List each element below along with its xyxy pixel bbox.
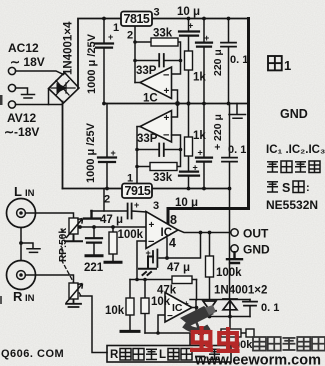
R channel box [107, 346, 231, 363]
wire: signal line from pot wiper to IC3 + input [80, 226, 146, 228]
Chinese note: tu1 (figure 1) [268, 56, 282, 70]
svg-text:100k: 100k [118, 229, 144, 241]
ground: under GND terminal [227, 252, 242, 263]
svg-text:www.eeworm.com: www.eeworm.com [194, 353, 321, 366]
svg-text:L: L [159, 349, 166, 361]
svg-text:7815: 7815 [124, 12, 150, 26]
svg-text:−: − [163, 130, 169, 142]
wire: 0V mid rail [104, 103, 249, 105]
svg-text:R: R [110, 349, 119, 361]
resistor 1k top [185, 51, 193, 70]
resistor 100k input [109, 232, 117, 254]
wire: lower row to R-channel box [145, 333, 190, 345]
svg-text:47 μ: 47 μ [167, 262, 190, 274]
potentiometer arrow L [66, 219, 83, 239]
svg-text:R: R [13, 289, 23, 304]
svg-text:+: + [108, 32, 113, 42]
svg-text:10 μ: 10 μ [175, 197, 198, 209]
svg-text:100k: 100k [216, 267, 242, 279]
terminal: AV12 bottom [8, 101, 15, 108]
resistor 10k right [141, 298, 149, 314]
resistor 33k bottom [150, 163, 177, 171]
svg-text:∼-18V: ∼-18V [4, 125, 39, 139]
svg-text:1C: 1C [143, 93, 158, 105]
capacitor 33P top [135, 60, 181, 62]
wire: 47k feedback row [130, 279, 197, 281]
svg-text:GND: GND [280, 107, 308, 121]
svg-text:1N4001×2: 1N4001×2 [214, 285, 267, 297]
resistor 100k input shunt branch [112, 227, 114, 261]
svg-text:IC₁ .IC₂.IC₃: IC₁ .IC₂.IC₃ [266, 144, 325, 156]
svg-text:+: + [111, 148, 116, 158]
terminal: center tap [8, 84, 15, 91]
svg-text:8: 8 [170, 213, 177, 227]
svg-text:221: 221 [84, 262, 104, 274]
svg-text:33P: 33P [136, 65, 157, 77]
capacitor C 1000u/25V top branch [103, 19, 105, 104]
svg-text:OUT: OUT [243, 227, 269, 241]
watermark: eeworm cap logo [180, 305, 216, 335]
svg-text:1k: 1k [193, 72, 206, 84]
wire: 33k bottom row [137, 135, 181, 167]
resistor 100k from OUT node down to diodes [209, 233, 211, 300]
ground: center-tap terminal ground [16, 88, 35, 98]
svg-text::: : [306, 182, 310, 194]
svg-text:0. 1: 0. 1 [230, 54, 248, 66]
svg-text:−: − [167, 311, 173, 322]
wire: 47u line into IC3 top corner [91, 211, 146, 212]
svg-text:2: 2 [127, 30, 133, 42]
watermark: red chong chong [190, 326, 213, 350]
Chinese note: da S de: [267, 182, 278, 192]
capacitor 47u input [128, 204, 132, 219]
junction dots [102, 17, 106, 21]
svg-text:∼ 18V: ∼ 18V [10, 55, 45, 69]
svg-text:10 μ: 10 μ [177, 6, 200, 18]
svg-text:4: 4 [169, 236, 176, 250]
svg-text:S: S [282, 181, 290, 195]
resistor 100k output [206, 256, 214, 277]
wire: -15V rail tap down to 47u input bias line [103, 189, 105, 212]
svg-text:1000 μ /25V: 1000 μ /25V [85, 122, 97, 183]
op-amp IC1 triangle [140, 67, 172, 99]
wire: IC2R output join [192, 280, 197, 308]
resistor 1k bottom [185, 137, 193, 156]
ground: under pot R [66, 299, 81, 307]
svg-text:+: + [198, 148, 203, 158]
svg-text:RP:50k: RP:50k [58, 228, 69, 262]
svg-text:+: + [193, 163, 198, 173]
svg-text:GND: GND [243, 243, 270, 257]
dashed gang link RP [62, 229, 82, 298]
wire: IC2 + input to 0V [172, 104, 178, 118]
ground: chassis ground on 0V rail [229, 104, 246, 119]
op-amp IC2 triangle [140, 111, 172, 143]
capacitor 33P bottom [137, 149, 181, 151]
wire: 7815 pin2 vertical with feedback taps [134, 26, 136, 83]
bridge internal diode [51, 81, 75, 96]
wire: IC3 output to OUT terminal [178, 230, 231, 233]
svg-text:1: 1 [113, 22, 119, 34]
svg-text:+: + [149, 220, 155, 231]
svg-text:3: 3 [153, 200, 159, 212]
wire: AC bottom terminal to bridge [16, 104, 63, 106]
svg-text:−: − [148, 236, 154, 248]
wire: Rin to pot R [26, 275, 74, 283]
svg-text:+: + [164, 86, 170, 97]
wire: 7915 pin1 vertical with taps [136, 127, 138, 184]
resistor 10k left [126, 298, 134, 315]
capacitor 0.1 at output [249, 300, 251, 317]
svg-text:NE5532N: NE5532N [266, 198, 318, 212]
bridge rectifier 1N4001x4 diamond [49, 73, 80, 104]
capacitor 47u decoupling at pin4 [153, 250, 157, 268]
ground: bar under 47u line [84, 211, 100, 219]
svg-text:+: + [184, 299, 189, 308]
regulator 7915 [122, 184, 152, 199]
capacitor 220u top branch [203, 19, 205, 104]
watermark: dianzi xiazaizhan gray-red [253, 337, 325, 351]
svg-text:+: + [146, 248, 151, 258]
wire: IC3 - input feedback down [137, 241, 146, 280]
jack Lin inner [17, 209, 26, 218]
wire: IC3 pin4 stub down [166, 238, 168, 258]
ground: under 221 [86, 254, 102, 257]
svg-text:7915: 7915 [125, 184, 151, 198]
potentiometer RP L section [65, 234, 82, 241]
svg-text:Q606. COM: Q606. COM [1, 348, 64, 360]
wire: bridge left corner stub [48, 90, 50, 105]
svg-text:−: − [163, 70, 169, 82]
svg-text:AC12: AC12 [8, 41, 39, 55]
svg-text:33k: 33k [153, 172, 173, 184]
svg-text:IC: IC [172, 302, 183, 314]
svg-text:10k: 10k [151, 296, 171, 308]
resistor 47k [172, 276, 192, 284]
potentiometer body L [69, 218, 78, 234]
edge smudges [0, 95, 3, 105]
terminal OUT [231, 229, 238, 236]
resistor 1k bottom + capacitor 10u bottom branch [188, 104, 190, 189]
wire: 33k row [135, 42, 181, 74]
diode D2 1N4001 [223, 301, 237, 310]
wire: Lin to pot [26, 213, 74, 218]
capacitor 0.1 bottom branch, continuing down to diode D2 [229, 104, 231, 300]
op-amp IC2R triangle [165, 293, 192, 323]
capacitor 10u top + resistor 1k branch [188, 19, 190, 104]
svg-text:1: 1 [284, 58, 291, 73]
svg-text:+: + [188, 21, 193, 31]
capacitor 221 shunt [93, 227, 95, 255]
resistor lower right [221, 329, 241, 337]
svg-text:47 μ: 47 μ [100, 214, 123, 226]
wire: pin4 node to output-side vertical [159, 233, 201, 258]
wire: diode bottom row [196, 300, 250, 317]
regulator 7815 [121, 12, 152, 27]
wire: lower right 100k branch [230, 317, 246, 334]
wire: bridge minus output down to -15V rail [62, 102, 64, 189]
wire: AC top terminal to bridge [16, 71, 64, 75]
svg-text:1000 μ /25V: 1000 μ /25V [86, 33, 98, 94]
op-amp IC1 output stub [135, 82, 140, 84]
svg-text:220 μ: 220 μ [212, 49, 224, 76]
terminal: AC12 top [8, 67, 15, 74]
capacitor 0.1 top branch [228, 19, 230, 104]
wire: right-side vertical +15V feed down to IC3 pin8 [168, 19, 249, 225]
svg-text:+: + [134, 200, 139, 210]
jack Rin inner [17, 271, 26, 280]
ground: 47u decoupling ground [139, 257, 156, 276]
jack Lin outer [7, 199, 36, 228]
wire: diode top row [190, 299, 250, 301]
resistor 10k left branch [129, 280, 131, 331]
svg-text:IN: IN [25, 293, 35, 304]
potentiometer body R [69, 283, 78, 299]
svg-text:2: 2 [104, 194, 110, 206]
op-amp IC3 triangle [146, 212, 178, 249]
op-amp IC2 output stub [137, 126, 140, 128]
wire: IC1 + input to 0V [172, 90, 178, 104]
svg-text:1: 1 [127, 173, 133, 185]
svg-text:33P: 33P [137, 133, 158, 145]
svg-text:L: L [14, 184, 22, 199]
svg-text:33k: 33k [153, 28, 173, 40]
jack Rin outer [7, 261, 36, 290]
svg-text:3: 3 [154, 7, 160, 19]
svg-text:+: + [164, 113, 170, 124]
svg-text:1k: 1k [193, 130, 206, 142]
capacitor C 1000u/25V bottom branch [106, 104, 108, 189]
wire: -15V bottom rail [63, 188, 230, 190]
resistor 10k right branch [144, 280, 146, 334]
svg-text:0. 1: 0. 1 [228, 144, 246, 156]
svg-text:AV12: AV12 [7, 111, 36, 125]
wire: IC2R - input stub [158, 315, 165, 333]
terminal GND [231, 245, 238, 252]
potentiometer arrow R [66, 284, 83, 304]
ground: under 100k input [105, 261, 121, 264]
Chinese note: jun wei mei guo [267, 161, 320, 173]
wire: Lin sleeve down / ground stub [21, 228, 40, 261]
diode D1 1N4001 [203, 301, 216, 310]
svg-text:+: + [204, 33, 209, 43]
svg-text:+ 220 μ: + 220 μ [212, 114, 224, 150]
resistor 33k top [151, 38, 178, 46]
svg-text:1N4001×4: 1N4001×4 [63, 21, 75, 75]
wire: +15V top rail from bridge corner to right edge [78, 19, 249, 89]
svg-text:10k: 10k [105, 305, 125, 317]
wire: pot R wiper to R-channel box [80, 296, 107, 353]
svg-text:0. 1: 0. 1 [261, 302, 279, 314]
svg-text:47k: 47k [157, 285, 177, 297]
component lower right small [246, 329, 254, 337]
ground: under 10k left [121, 330, 139, 333]
capacitor 220u bottom branch [203, 104, 205, 189]
svg-text:IN: IN [25, 188, 35, 199]
